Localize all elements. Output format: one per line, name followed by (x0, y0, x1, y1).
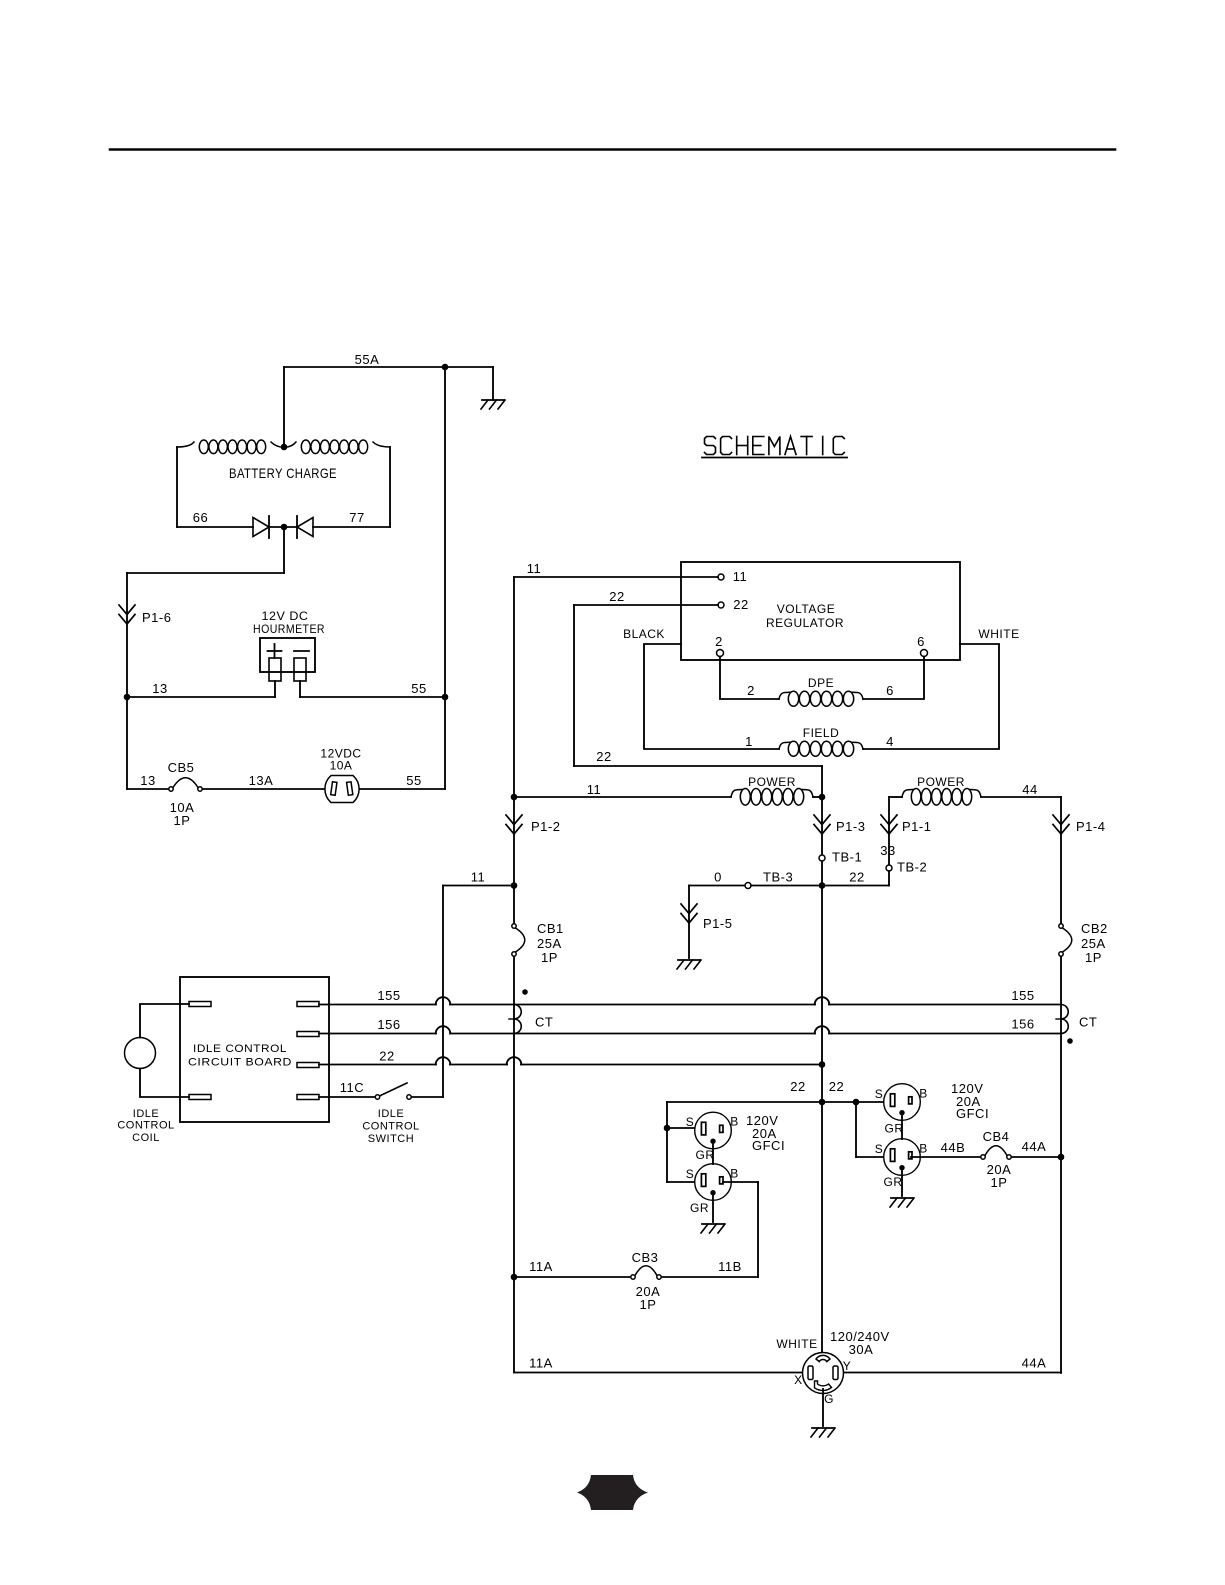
svg-text:0: 0 (714, 870, 722, 885)
svg-text:CB5: CB5 (168, 760, 195, 775)
svg-text:B: B (730, 1114, 739, 1128)
svg-text:TB-3: TB-3 (763, 870, 793, 885)
svg-text:COIL: COIL (132, 1132, 160, 1144)
svg-text:6: 6 (886, 683, 894, 698)
svg-text:B: B (919, 1087, 928, 1101)
svg-text:11A: 11A (529, 1356, 553, 1371)
svg-text:POWER: POWER (917, 775, 965, 789)
svg-text:22: 22 (733, 597, 748, 612)
svg-text:11: 11 (471, 870, 486, 885)
svg-text:CONTROL: CONTROL (362, 1121, 419, 1133)
svg-text:77: 77 (349, 510, 364, 525)
svg-text:22: 22 (609, 589, 624, 604)
svg-text:25A: 25A (537, 936, 562, 951)
svg-text:1P: 1P (991, 1175, 1008, 1190)
svg-text:22: 22 (849, 870, 864, 885)
svg-text:2: 2 (747, 683, 755, 698)
svg-text:S: S (686, 1167, 695, 1181)
svg-text:S: S (875, 1142, 884, 1156)
svg-text:P1-2: P1-2 (531, 819, 560, 834)
svg-text:CB4: CB4 (983, 1129, 1010, 1144)
svg-text:11: 11 (527, 561, 542, 576)
svg-text:SWITCH: SWITCH (368, 1133, 414, 1145)
svg-text:BATTERY CHARGE: BATTERY CHARGE (229, 465, 337, 481)
svg-text:S: S (686, 1115, 695, 1129)
svg-text:55A: 55A (355, 352, 380, 367)
svg-text:156: 156 (377, 1017, 400, 1032)
svg-text:11B: 11B (718, 1259, 742, 1274)
svg-text:FIELD: FIELD (803, 726, 840, 740)
svg-text:IDLE: IDLE (378, 1108, 404, 1120)
svg-text:11C: 11C (340, 1080, 364, 1095)
svg-text:WHITE: WHITE (776, 1337, 817, 1351)
svg-text:22: 22 (829, 1079, 844, 1094)
svg-text:GR: GR (696, 1148, 715, 1162)
svg-text:P1-4: P1-4 (1076, 819, 1105, 834)
svg-text:11A: 11A (529, 1259, 553, 1274)
svg-text:X: X (794, 1373, 803, 1387)
svg-text:1P: 1P (174, 813, 191, 828)
svg-text:VOLTAGE: VOLTAGE (777, 602, 835, 616)
svg-text:6: 6 (917, 634, 925, 649)
svg-text:1: 1 (745, 734, 753, 749)
svg-text:55: 55 (411, 681, 426, 696)
svg-text:CT: CT (535, 1015, 553, 1030)
svg-text:B: B (730, 1166, 739, 1180)
svg-text:CONTROL: CONTROL (117, 1120, 174, 1132)
svg-text:10A: 10A (330, 759, 353, 773)
svg-text:BLACK: BLACK (623, 627, 665, 641)
svg-text:2: 2 (715, 634, 723, 649)
svg-text:156: 156 (1011, 1017, 1034, 1032)
svg-text:B: B (919, 1142, 928, 1156)
svg-text:44: 44 (1022, 782, 1037, 797)
svg-text:44A: 44A (1022, 1139, 1047, 1154)
svg-text:4: 4 (886, 734, 894, 749)
svg-text:IDLE: IDLE (133, 1108, 159, 1120)
svg-text:22: 22 (596, 749, 611, 764)
svg-text:P1-1: P1-1 (902, 819, 931, 834)
svg-text:66: 66 (193, 510, 208, 525)
svg-text:CIRCUIT BOARD: CIRCUIT BOARD (188, 1057, 292, 1069)
svg-text:REGULATOR: REGULATOR (766, 616, 844, 630)
svg-text:GFCI: GFCI (752, 1138, 785, 1153)
svg-text:P1-6: P1-6 (142, 610, 171, 625)
svg-text:HOURMETER: HOURMETER (253, 622, 325, 636)
svg-text:13A: 13A (249, 773, 274, 788)
svg-text:P1-3: P1-3 (836, 819, 865, 834)
svg-text:1P: 1P (1085, 950, 1102, 965)
svg-text:55: 55 (406, 773, 421, 788)
svg-text:TB-1: TB-1 (832, 850, 862, 865)
svg-text:POWER: POWER (748, 775, 796, 789)
svg-text:CT: CT (1079, 1015, 1097, 1030)
svg-text:GR: GR (885, 1122, 904, 1136)
svg-text:44B: 44B (941, 1140, 966, 1155)
svg-text:155: 155 (1011, 988, 1034, 1003)
svg-text:GFCI: GFCI (956, 1106, 989, 1121)
svg-text:25A: 25A (1081, 936, 1106, 951)
svg-text:13: 13 (140, 773, 155, 788)
svg-text:GR: GR (884, 1175, 903, 1189)
svg-text:22: 22 (379, 1049, 394, 1064)
svg-text:33: 33 (880, 843, 895, 858)
svg-text:1P: 1P (541, 950, 558, 965)
svg-text:P1-5: P1-5 (703, 916, 732, 931)
svg-text:CB3: CB3 (632, 1250, 659, 1265)
svg-text:DPE: DPE (808, 676, 834, 690)
svg-text:CB1: CB1 (537, 921, 564, 936)
svg-text:12V DC: 12V DC (262, 609, 309, 623)
svg-text:11: 11 (733, 569, 748, 584)
svg-text:G: G (824, 1392, 834, 1406)
svg-text:22: 22 (790, 1079, 805, 1094)
svg-text:155: 155 (377, 988, 400, 1003)
svg-text:WHITE: WHITE (978, 627, 1019, 641)
svg-text:CB2: CB2 (1081, 921, 1108, 936)
svg-text:11: 11 (587, 782, 602, 797)
svg-text:TB-2: TB-2 (897, 860, 927, 875)
svg-text:13: 13 (152, 681, 167, 696)
svg-text:1P: 1P (640, 1297, 657, 1312)
svg-text:S: S (875, 1087, 884, 1101)
svg-text:30A: 30A (849, 1342, 874, 1357)
svg-text:Y: Y (843, 1359, 852, 1373)
svg-text:44A: 44A (1022, 1356, 1047, 1371)
svg-text:IDLE CONTROL: IDLE CONTROL (193, 1043, 287, 1055)
svg-text:GR: GR (690, 1201, 709, 1215)
